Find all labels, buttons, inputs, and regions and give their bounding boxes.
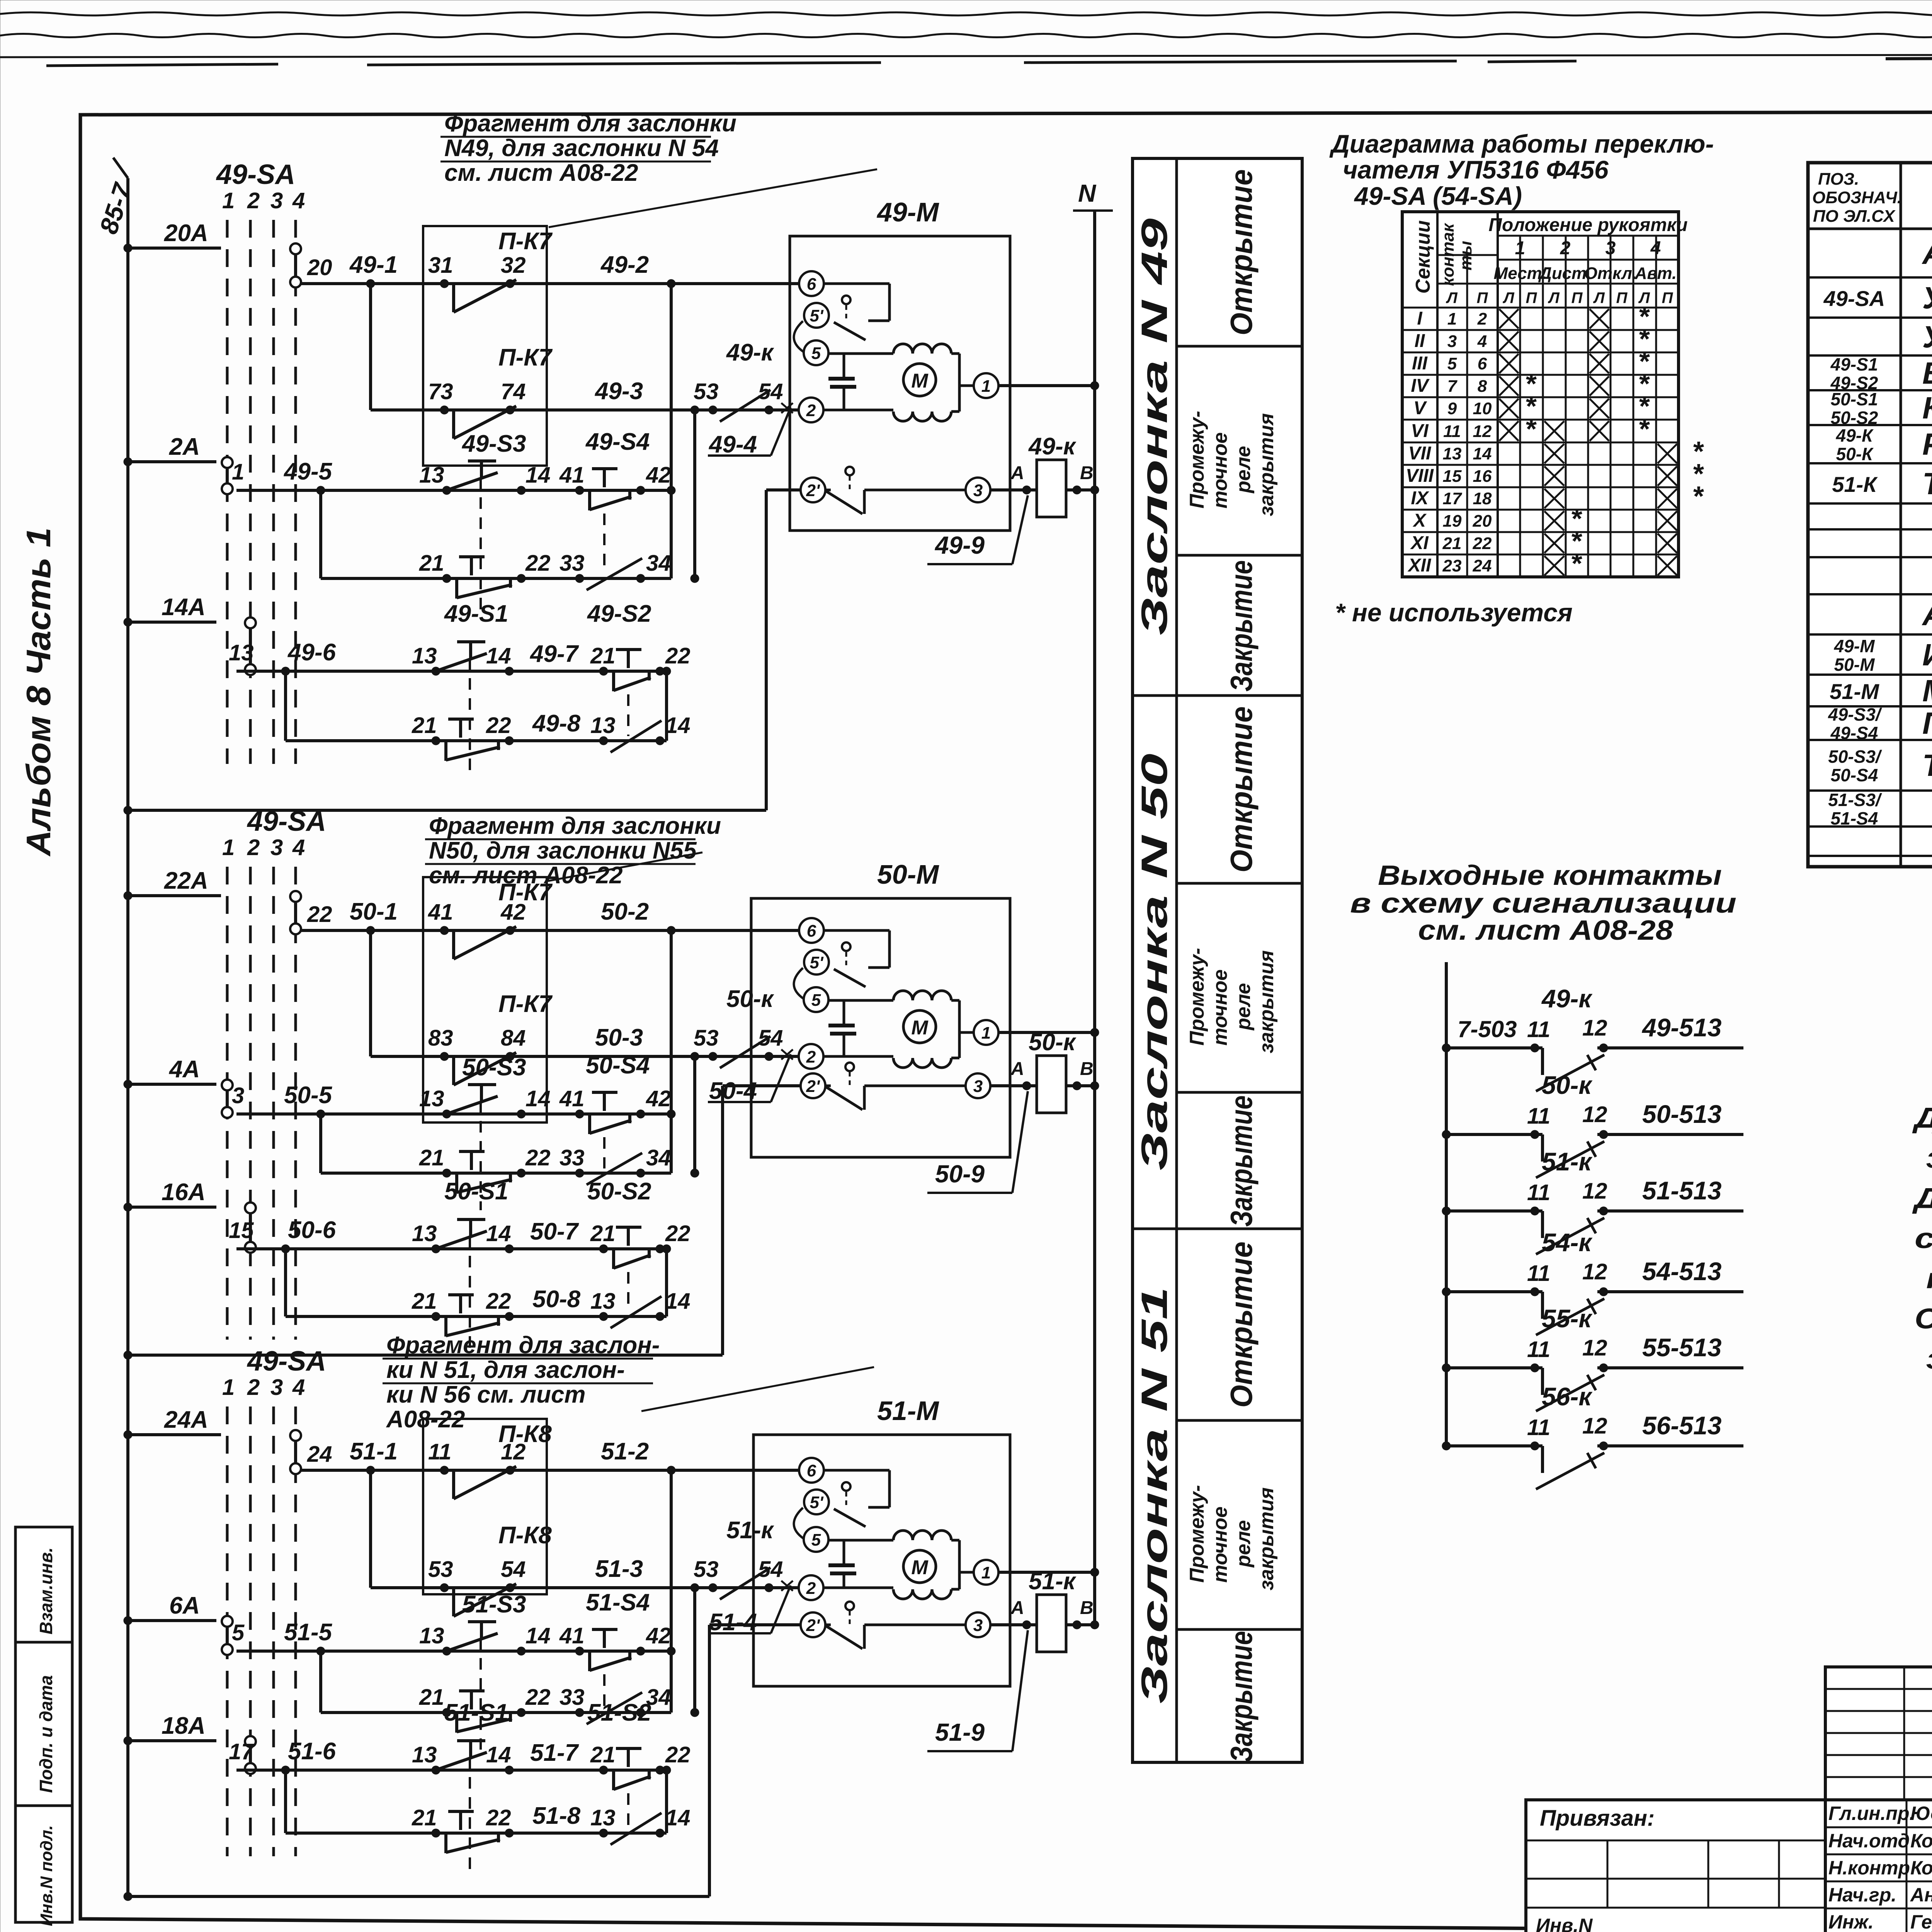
link dashed 49-S3 bbox=[480, 477, 482, 616]
svg-text:33: 33 bbox=[560, 1145, 585, 1170]
svg-text:II: II bbox=[1415, 331, 1425, 351]
svg-text:заслонок N 49, N 50, N 51: заслонок N 49, N 50, N 51 bbox=[1926, 1343, 1932, 1375]
contact 33-34 50 bbox=[575, 1169, 584, 1177]
svg-text:50-513: 50-513 bbox=[1642, 1100, 1722, 1128]
svg-text:49-К: 49-К bbox=[1836, 425, 1874, 446]
svg-text:3: 3 bbox=[973, 1616, 983, 1635]
svg-text:51-S4: 51-S4 bbox=[1831, 808, 1878, 828]
svg-text:41: 41 bbox=[559, 463, 585, 488]
svg-text:15: 15 bbox=[229, 1218, 254, 1243]
svg-text:нения номеров в обозначения: нения номеров в обозначениях bbox=[1926, 1262, 1932, 1294]
svg-text:51-5: 51-5 bbox=[284, 1619, 333, 1646]
contact П-К8 11-12 bbox=[440, 1466, 449, 1475]
svg-text:7-503: 7-503 bbox=[1458, 1016, 1517, 1042]
svg-text:12: 12 bbox=[1582, 1259, 1607, 1284]
svg-text:12: 12 bbox=[1473, 422, 1492, 441]
svg-text:МЭО-0,63/63-0,25м: МЭО-0,63/63-0,25м bbox=[1922, 673, 1932, 708]
svg-text:13: 13 bbox=[419, 1086, 444, 1111]
svg-text:5': 5' bbox=[810, 953, 824, 972]
svg-text:21: 21 bbox=[419, 1145, 444, 1170]
svg-text:см. лист А08-22: см. лист А08-22 bbox=[444, 160, 638, 186]
wire 49-1 top rail bbox=[301, 282, 798, 285]
svg-text:1: 1 bbox=[222, 1375, 235, 1400]
signal wire 55-513 bbox=[1604, 1366, 1743, 1369]
svg-text:Исполнительный механизм: Исполнительный механизм bbox=[1922, 638, 1932, 672]
title block small grid bbox=[1825, 1667, 1932, 1800]
svg-text:55-513: 55-513 bbox=[1642, 1333, 1722, 1362]
svg-text:IX: IX bbox=[1411, 488, 1429, 509]
svg-text:Выходные контакты: Выходные контакты bbox=[1378, 860, 1722, 891]
wire 51-1 top rail bbox=[301, 1469, 798, 1472]
svg-text:11: 11 bbox=[1527, 1104, 1550, 1129]
wire 51-5 bbox=[236, 1650, 671, 1653]
svg-text:34: 34 bbox=[646, 551, 671, 576]
svg-text:3: 3 bbox=[973, 1077, 983, 1096]
wire 49-3 bbox=[371, 408, 798, 412]
link dashed 50-S3 bbox=[480, 1101, 482, 1210]
wire terminal3 to relay 49-к bbox=[990, 488, 1037, 492]
selector contact 49-SA section for 14А bbox=[245, 617, 256, 628]
svg-text:24А: 24А bbox=[164, 1406, 208, 1433]
junction drop 49-3 bbox=[690, 406, 699, 414]
svg-text:22: 22 bbox=[525, 1145, 551, 1170]
svg-text:3: 3 bbox=[973, 481, 983, 500]
svg-text:51-4: 51-4 bbox=[709, 1609, 757, 1636]
svg-text:14А: 14А bbox=[162, 594, 206, 621]
svg-text:4: 4 bbox=[1650, 238, 1661, 259]
svg-text:Пост кнопочный ПКЕ-722-2У2: Пост кнопочный ПКЕ-722-2У2 bbox=[1922, 706, 1932, 740]
svg-text:* не используется: * не используется bbox=[1335, 598, 1573, 627]
svg-text:В: В bbox=[1080, 1598, 1094, 1618]
svg-text:51-S3/: 51-S3/ bbox=[1828, 790, 1882, 810]
svg-text:14: 14 bbox=[665, 713, 690, 738]
fragment leader 51 bbox=[641, 1367, 874, 1411]
svg-text:2: 2 bbox=[1560, 238, 1571, 259]
wire row 21-34 51 bbox=[321, 1711, 671, 1714]
svg-text:21: 21 bbox=[419, 1685, 444, 1710]
svg-text:21: 21 bbox=[590, 643, 616, 668]
svg-text:54-к: 54-к bbox=[1542, 1228, 1593, 1257]
selector contact 50-SA section for 22А bbox=[290, 891, 301, 902]
svg-text:N49, для заслонки N 54: N49, для заслонки N 54 bbox=[444, 135, 719, 162]
svg-text:22: 22 bbox=[486, 1805, 511, 1830]
svg-text:50-8: 50-8 bbox=[532, 1286, 581, 1313]
svg-text:Л: Л bbox=[1593, 289, 1605, 306]
svg-text:Универсальный переключатель: Универсальный переключатель bbox=[1922, 281, 1932, 315]
terminal 5p 50-М bbox=[804, 950, 829, 975]
wire terminal1 to N 51 bbox=[959, 1571, 974, 1574]
pushbutton 50-S3 contact lower bbox=[442, 1169, 451, 1177]
output contacts bus bbox=[1445, 962, 1448, 1446]
svg-text:51-к: 51-к bbox=[726, 1517, 774, 1544]
svg-text:1: 1 bbox=[232, 459, 244, 485]
link dashed 51-S3 bbox=[480, 1638, 482, 1750]
svg-text:6: 6 bbox=[1478, 354, 1487, 373]
svg-text:42: 42 bbox=[646, 463, 671, 488]
signal contact 51-к bbox=[1442, 1207, 1451, 1215]
svg-text:49-SA (54-SA): 49-SA (54-SA) bbox=[1354, 182, 1522, 210]
terminal 3 49-М bbox=[966, 478, 990, 502]
svg-text:2А: 2А bbox=[169, 434, 200, 460]
selector switch 50-SA dashed section lines bbox=[227, 867, 296, 1340]
svg-text:32: 32 bbox=[501, 253, 526, 278]
switch diagram table bbox=[1402, 212, 1679, 577]
svg-text:Фрагмент для заслон-: Фрагмент для заслон- bbox=[386, 1332, 660, 1359]
svg-text:13: 13 bbox=[412, 1221, 437, 1246]
svg-text:Подп. и дата: Подп. и дата bbox=[36, 1675, 56, 1793]
switch diagram rows bbox=[1402, 329, 1679, 331]
svg-text:П: П bbox=[1662, 289, 1673, 306]
wire 50-8 row bbox=[286, 1315, 667, 1318]
svg-text:2': 2' bbox=[806, 1616, 820, 1635]
pushbutton 49-S3 contact lower bbox=[442, 574, 451, 583]
svg-text:51-1: 51-1 bbox=[350, 1438, 398, 1465]
neutral N line bbox=[1093, 211, 1096, 1626]
svg-text:11: 11 bbox=[1527, 1017, 1550, 1042]
svg-text:Козлов: Козлов bbox=[1910, 1857, 1932, 1879]
svg-text:*: * bbox=[1526, 414, 1537, 445]
svg-text:17: 17 bbox=[1443, 489, 1463, 508]
svg-text:1: 1 bbox=[222, 835, 235, 860]
svg-text:П-К7: П-К7 bbox=[498, 228, 553, 255]
terminal 2 50-М bbox=[799, 1044, 823, 1069]
svg-text:53: 53 bbox=[694, 379, 719, 404]
svg-text:51-513: 51-513 bbox=[1642, 1176, 1722, 1205]
svg-text:Н.контр: Н.контр bbox=[1828, 1857, 1910, 1879]
svg-text:14: 14 bbox=[1473, 444, 1492, 463]
svg-text:5: 5 bbox=[1447, 354, 1457, 373]
svg-text:49-4: 49-4 bbox=[708, 431, 757, 458]
svg-text:21: 21 bbox=[412, 1805, 437, 1830]
wire 51-3 bbox=[371, 1586, 798, 1589]
return rail wire 51 bbox=[124, 1892, 132, 1901]
svg-text:2: 2 bbox=[247, 1375, 260, 1400]
left stamp box Инв.N подл. bbox=[15, 1806, 72, 1922]
svg-text:Диаграмма работы переклю-: Диаграмма работы переклю- bbox=[1329, 129, 1714, 158]
svg-text:Аппаратура на щите N 7: Аппаратура на щите N 7 bbox=[1922, 236, 1932, 270]
capacitor 49-М bbox=[828, 352, 893, 355]
limit switch lower 51-М bbox=[825, 1624, 831, 1626]
actuator box 51-М bbox=[753, 1435, 1010, 1686]
svg-text:В: В bbox=[1080, 1059, 1094, 1079]
junction drop 50-3 bbox=[690, 1052, 699, 1061]
svg-text:Заслонка N 51: Заслонка N 51 bbox=[1134, 1287, 1175, 1704]
wire relay to N 49 bbox=[1066, 488, 1095, 492]
svg-text:Антохина: Антохина bbox=[1910, 1884, 1932, 1906]
wire 50-5 bbox=[236, 1112, 671, 1116]
selector contact 50-SA section for 16А bbox=[245, 1202, 256, 1213]
svg-text:3: 3 bbox=[270, 835, 283, 860]
pushbutton 50-S2 contact upper bbox=[599, 1245, 608, 1253]
svg-text:13: 13 bbox=[412, 1742, 437, 1767]
svg-text:Л: Л bbox=[1502, 289, 1515, 306]
svg-text:1: 1 bbox=[981, 1563, 991, 1582]
terminal 1 50-М bbox=[974, 1020, 998, 1045]
svg-text:49-5: 49-5 bbox=[283, 458, 333, 485]
svg-text:М: М bbox=[911, 1556, 929, 1579]
svg-text:Нач.гр.: Нач.гр. bbox=[1828, 1884, 1896, 1906]
svg-text:1: 1 bbox=[1515, 238, 1526, 259]
svg-text:13: 13 bbox=[229, 640, 254, 665]
svg-text:51-S3: 51-S3 bbox=[462, 1591, 526, 1618]
actuator box 50-М bbox=[751, 898, 1010, 1157]
wire terminal1 to N 49 bbox=[959, 384, 974, 387]
svg-text:12: 12 bbox=[501, 1439, 526, 1464]
svg-text:73: 73 bbox=[428, 379, 453, 404]
svg-text:Авт.: Авт. bbox=[1634, 264, 1677, 283]
svg-text:15: 15 bbox=[1443, 467, 1462, 486]
svg-text:49-SA: 49-SA bbox=[1823, 286, 1885, 311]
svg-text:49-S4: 49-S4 bbox=[1830, 723, 1878, 743]
svg-text:22: 22 bbox=[665, 643, 690, 668]
svg-text:Закрытие: Закрытие bbox=[1224, 1631, 1259, 1762]
selector switch 51-SA dashed section lines bbox=[227, 1406, 296, 1856]
wire drop 51-6 lower bbox=[284, 1770, 287, 1833]
svg-text:49-6: 49-6 bbox=[287, 639, 336, 666]
svg-text:X: X bbox=[1412, 510, 1427, 531]
svg-text:34: 34 bbox=[646, 1145, 671, 1170]
svg-text:55-к: 55-к bbox=[1542, 1304, 1593, 1333]
terminal 5 50-М bbox=[804, 987, 828, 1012]
terminal 2 49-М bbox=[799, 398, 823, 422]
left stamp box Подп. и дата bbox=[15, 1642, 72, 1806]
svg-text:42: 42 bbox=[500, 900, 526, 925]
svg-text:50-6: 50-6 bbox=[288, 1217, 336, 1243]
svg-text:П: П bbox=[1616, 289, 1628, 306]
wire terminal3 to relay 50-к bbox=[990, 1084, 1037, 1087]
svg-text:Привязан:: Привязан: bbox=[1540, 1806, 1655, 1831]
svg-text:Козлов: Козлов bbox=[1910, 1830, 1932, 1852]
svg-text:14: 14 bbox=[486, 1221, 511, 1246]
svg-text:49-1: 49-1 bbox=[349, 252, 398, 278]
return rail wire 50 bbox=[124, 1351, 132, 1359]
wire terminal3 to relay 51-к bbox=[990, 1623, 1037, 1626]
wire row 21-34 49 bbox=[321, 577, 671, 580]
contact П-К7 73-74 bbox=[440, 406, 449, 414]
svg-text:50-S4: 50-S4 bbox=[1831, 765, 1878, 785]
svg-text:49-S3: 49-S3 bbox=[461, 430, 526, 457]
motor 49-М bbox=[903, 364, 936, 396]
svg-text:2: 2 bbox=[247, 835, 260, 860]
contact П-К7 83-84 bbox=[440, 1052, 449, 1061]
svg-text:14: 14 bbox=[665, 1289, 690, 1314]
svg-text:51-К: 51-К bbox=[1832, 472, 1878, 497]
svg-text:17: 17 bbox=[229, 1739, 255, 1764]
svg-text:50-2: 50-2 bbox=[601, 898, 649, 925]
svg-text:50-5: 50-5 bbox=[284, 1082, 333, 1109]
svg-text:Промежу-: Промежу- bbox=[1186, 948, 1208, 1046]
svg-text:51-S1: 51-S1 bbox=[444, 1699, 508, 1726]
svg-text:3: 3 bbox=[1605, 238, 1616, 259]
svg-text:Аппаратура по месту: Аппаратура по месту bbox=[1922, 597, 1932, 632]
svg-text:50-М: 50-М bbox=[1834, 655, 1875, 675]
svg-text:В: В bbox=[1080, 463, 1094, 483]
svg-text:КЕ 011У3 исп 2 ТУ16.642. 015-: КЕ 011У3 исп 2 ТУ16.642. 015-84 bbox=[1922, 391, 1932, 425]
svg-text:П-К8: П-К8 bbox=[498, 1522, 552, 1549]
svg-text:схема аналогичная с учетом: схема аналогичная с учетом изме- bbox=[1915, 1222, 1932, 1254]
svg-text:51-М: 51-М bbox=[1830, 679, 1879, 704]
junction drop 51-3 bbox=[690, 1583, 699, 1592]
left stamp box Взам.инв. bbox=[15, 1527, 72, 1642]
svg-text:Промежу-: Промежу- bbox=[1186, 411, 1208, 509]
svg-text:53: 53 bbox=[694, 1557, 719, 1582]
svg-text:Заслонка N 50: Заслонка N 50 bbox=[1134, 753, 1175, 1171]
svg-text:41: 41 bbox=[428, 900, 453, 925]
svg-text:13: 13 bbox=[590, 1289, 616, 1314]
svg-text:14: 14 bbox=[526, 1086, 551, 1111]
svg-text:Инв.N: Инв.N bbox=[1536, 1915, 1593, 1932]
relay box П-К7 bbox=[423, 877, 547, 1122]
terminal 3 51-М bbox=[966, 1612, 990, 1637]
svg-text:50-к: 50-к bbox=[1542, 1071, 1593, 1099]
svg-text:А: А bbox=[1010, 1059, 1024, 1079]
svg-text:50-S2: 50-S2 bbox=[1831, 408, 1878, 428]
svg-text:закрытия: закрытия bbox=[1255, 950, 1278, 1053]
svg-text:Герасимова: Герасимова bbox=[1910, 1911, 1932, 1932]
svg-text:3: 3 bbox=[232, 1083, 244, 1108]
svg-text:13: 13 bbox=[412, 643, 437, 668]
svg-text:Альбом 8 Часть 1: Альбом 8 Часть 1 bbox=[19, 527, 58, 857]
svg-text:Открытие: Открытие bbox=[1224, 706, 1259, 872]
contact 51-8 13-14 bbox=[599, 1829, 608, 1837]
svg-text:ты: ты bbox=[1456, 241, 1475, 270]
terminal 6 51-М bbox=[799, 1458, 824, 1483]
svg-text:51-2: 51-2 bbox=[601, 1438, 649, 1465]
pushbutton 51-S1 contact upper bbox=[432, 1766, 440, 1774]
circuit block for damper 50 bbox=[124, 806, 1099, 1359]
svg-text:42: 42 bbox=[646, 1623, 671, 1648]
selector contact 51-SA section for 18А bbox=[245, 1736, 256, 1747]
signal contact 56-к bbox=[1442, 1442, 1451, 1450]
svg-text:51-S4: 51-S4 bbox=[586, 1589, 650, 1616]
limit switch upper 49-М bbox=[824, 282, 889, 285]
contact П-К7 31-32 bbox=[440, 279, 449, 288]
svg-text:51-3: 51-3 bbox=[595, 1556, 643, 1582]
svg-text:22: 22 bbox=[307, 902, 332, 927]
svg-text:22: 22 bbox=[525, 551, 551, 576]
scan artifact top rule bbox=[0, 54, 1932, 57]
svg-text:51-7: 51-7 bbox=[530, 1740, 579, 1766]
svg-text:49-3: 49-3 bbox=[594, 378, 643, 405]
link dashed 49-S1 bbox=[469, 658, 471, 778]
link dashed 50-S4 bbox=[603, 1137, 605, 1168]
svg-text:1: 1 bbox=[981, 377, 991, 396]
terminal 5p 51-М bbox=[804, 1490, 829, 1514]
svg-text:21: 21 bbox=[412, 1289, 437, 1314]
signal wire 49-513 bbox=[1604, 1046, 1743, 1049]
svg-text:ОБОЗНАЧ.: ОБОЗНАЧ. bbox=[1812, 188, 1902, 207]
wire 50-6 bbox=[236, 1247, 667, 1250]
svg-text:54: 54 bbox=[758, 1026, 783, 1051]
svg-text:49-S4: 49-S4 bbox=[585, 429, 650, 455]
pushbutton 50-S1 contact lower bbox=[432, 1312, 440, 1321]
motor winding 50-М bbox=[893, 991, 951, 1000]
svg-text:3: 3 bbox=[270, 1375, 283, 1400]
svg-text:50-S2: 50-S2 bbox=[587, 1178, 651, 1205]
svg-text:13: 13 bbox=[419, 1623, 444, 1648]
svg-text:Дист.: Дист. bbox=[1538, 264, 1591, 283]
svg-text:49-SA: 49-SA bbox=[247, 1346, 326, 1377]
scan artifact top wavy line bbox=[0, 34, 1932, 37]
pushbutton 51-S3 contact lower bbox=[442, 1708, 451, 1717]
contact 49-8 13-14 bbox=[599, 736, 608, 745]
svg-text:точное: точное bbox=[1209, 1507, 1231, 1583]
svg-text:53: 53 bbox=[694, 1026, 719, 1051]
svg-text:Реле ПЭ 3762 У3 220В, 50Гц: Реле ПЭ 3762 У3 220В, 50Гц bbox=[1922, 427, 1932, 461]
svg-text:50-9: 50-9 bbox=[935, 1160, 985, 1188]
pushbutton 49-S1 contact upper bbox=[432, 667, 440, 675]
svg-text:П: П bbox=[1526, 289, 1537, 306]
svg-text:ки N 51, для заслон-: ки N 51, для заслон- bbox=[386, 1357, 625, 1383]
svg-text:закрытия: закрытия bbox=[1255, 1487, 1278, 1590]
svg-text:50-S1: 50-S1 bbox=[1831, 389, 1878, 409]
svg-text:5: 5 bbox=[811, 1531, 821, 1549]
limit switch lower 50-М bbox=[825, 1085, 831, 1087]
svg-text:VIII: VIII bbox=[1406, 466, 1434, 486]
terminal 6 49-М bbox=[799, 271, 824, 296]
svg-text:точное: точное bbox=[1209, 432, 1231, 509]
svg-text:31: 31 bbox=[428, 253, 453, 278]
svg-text:24: 24 bbox=[307, 1442, 332, 1467]
wire relay to N 50 bbox=[1066, 1084, 1095, 1087]
svg-text:22: 22 bbox=[665, 1742, 690, 1767]
damper group table frame bbox=[1133, 158, 1302, 1762]
svg-text:49-SA: 49-SA bbox=[247, 806, 326, 837]
svg-text:12: 12 bbox=[1582, 1335, 1607, 1361]
svg-text:12: 12 bbox=[1582, 1179, 1607, 1204]
svg-text:3: 3 bbox=[1447, 332, 1457, 351]
scan artifact top wavy line 0 bbox=[0, 12, 1932, 15]
svg-text:53: 53 bbox=[428, 1557, 453, 1582]
svg-text:Заслонка N 49: Заслонка N 49 bbox=[1134, 218, 1175, 636]
svg-text:51-М: 51-М bbox=[877, 1396, 939, 1426]
pushbutton 50-S4 contact upper bbox=[575, 1110, 584, 1118]
terminal 6 50-М bbox=[799, 918, 824, 943]
svg-text:*: * bbox=[1571, 548, 1582, 579]
svg-text:11: 11 bbox=[1527, 1337, 1550, 1362]
svg-text:20А: 20А bbox=[164, 220, 208, 247]
svg-text:51-8: 51-8 bbox=[532, 1803, 581, 1829]
capacitor 50-М bbox=[828, 999, 893, 1002]
svg-text:33: 33 bbox=[560, 1685, 585, 1710]
svg-text:Л: Л bbox=[1446, 289, 1458, 306]
svg-text:XII: XII bbox=[1407, 555, 1432, 576]
svg-text:84: 84 bbox=[501, 1026, 526, 1051]
svg-text:Для группы заслонок N 54, N: Для группы заслонок N 54, N 55, N 56 bbox=[1912, 1182, 1932, 1214]
bus L line bbox=[126, 178, 129, 1896]
link dashed 51-S2 bbox=[627, 1793, 629, 1828]
svg-text:49-S3/: 49-S3/ bbox=[1828, 704, 1882, 724]
svg-text:ТУ16. 642. 006 - 83: ТУ16. 642. 006 - 83 bbox=[1922, 748, 1932, 782]
pushbutton 49-S1 contact lower bbox=[432, 736, 440, 745]
junction drop 49-2 bbox=[670, 284, 673, 578]
svg-text:I: I bbox=[1417, 308, 1423, 329]
svg-text:21: 21 bbox=[590, 1221, 616, 1246]
svg-text:18: 18 bbox=[1473, 489, 1492, 508]
svg-text:33: 33 bbox=[560, 551, 585, 576]
svg-text:Спецификация выполнена для: Спецификация выполнена для bbox=[1915, 1303, 1932, 1335]
svg-text:Откл.: Откл. bbox=[1584, 264, 1637, 283]
signal contact 50-к bbox=[1442, 1130, 1451, 1139]
svg-text:49-к: 49-к bbox=[1541, 984, 1593, 1013]
junction drop 50-2 bbox=[670, 930, 673, 1173]
svg-text:54: 54 bbox=[758, 379, 783, 404]
signal contact 49-к bbox=[1442, 1044, 1451, 1052]
motor winding 51-М bbox=[893, 1531, 951, 1540]
title block signatures bbox=[1825, 1800, 1932, 1932]
svg-text:13: 13 bbox=[590, 713, 616, 738]
svg-text:6: 6 bbox=[807, 922, 816, 940]
